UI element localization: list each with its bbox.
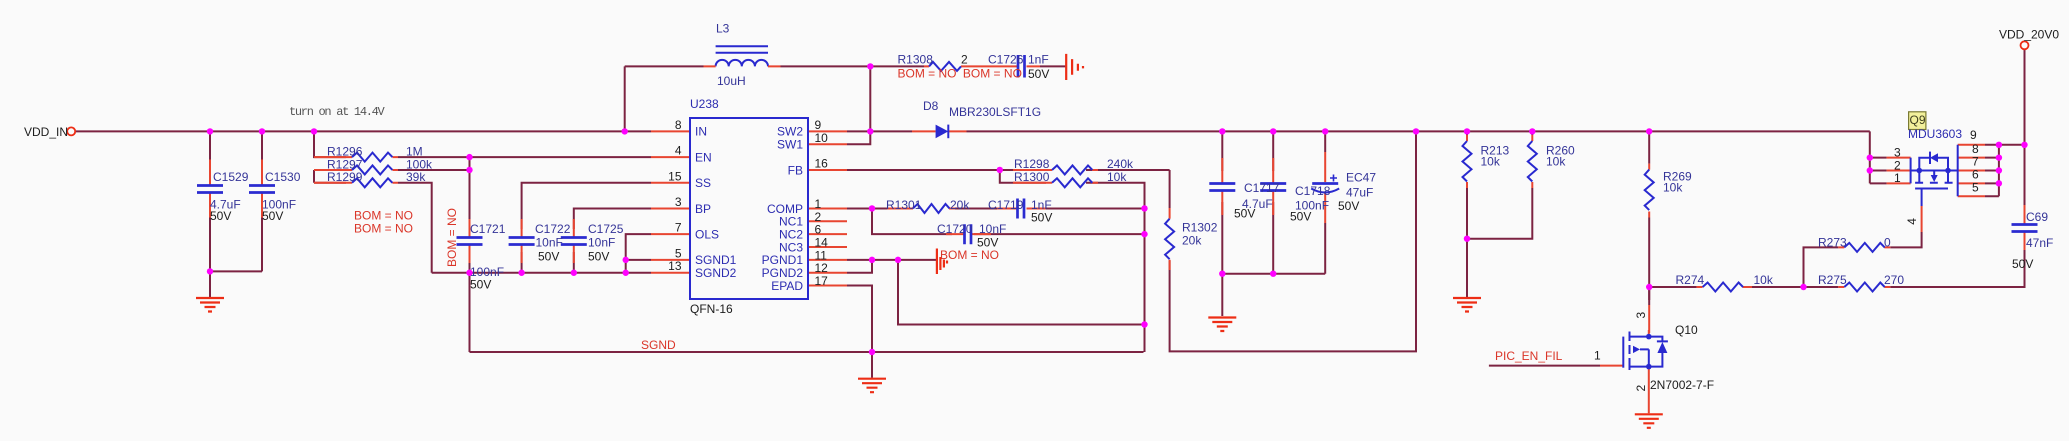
- svg-text:10k: 10k: [1663, 181, 1683, 195]
- svg-text:C1720: C1720: [937, 222, 973, 236]
- svg-text:10k: 10k: [1546, 155, 1566, 169]
- svg-text:EC47: EC47: [1346, 171, 1376, 185]
- svg-text:C1717: C1717: [1244, 181, 1280, 195]
- svg-text:SGND: SGND: [641, 338, 676, 352]
- svg-text:BOM = NO: BOM = NO: [963, 66, 1022, 80]
- svg-text:turn on at 14.4V: turn on at 14.4V: [289, 105, 386, 119]
- svg-text:C69: C69: [2026, 210, 2048, 224]
- svg-text:13: 13: [668, 259, 682, 273]
- svg-text:BOM = NO: BOM = NO: [940, 248, 999, 262]
- svg-text:10nF: 10nF: [588, 236, 615, 250]
- svg-text:47uF: 47uF: [1346, 186, 1373, 200]
- svg-text:IN: IN: [695, 125, 707, 139]
- svg-text:50V: 50V: [1290, 210, 1311, 224]
- svg-text:BOM = NO: BOM = NO: [445, 208, 459, 267]
- svg-text:2: 2: [961, 53, 968, 67]
- svg-text:R1299: R1299: [327, 170, 363, 184]
- svg-text:50V: 50V: [538, 250, 559, 264]
- svg-text:4: 4: [675, 144, 682, 158]
- svg-text:3: 3: [1634, 312, 1648, 319]
- svg-text:50V: 50V: [1338, 199, 1359, 213]
- svg-text:39k: 39k: [406, 170, 426, 184]
- svg-text:10nF: 10nF: [979, 222, 1006, 236]
- svg-text:U238: U238: [690, 97, 719, 111]
- svg-text:5: 5: [1972, 180, 1979, 194]
- svg-text:47nF: 47nF: [2026, 236, 2053, 250]
- svg-text:EPAD: EPAD: [771, 279, 803, 293]
- svg-text:R273: R273: [1818, 236, 1847, 250]
- svg-text:L3: L3: [716, 22, 730, 36]
- svg-text:EN: EN: [695, 150, 712, 164]
- svg-text:1nF: 1nF: [1028, 53, 1049, 67]
- svg-text:50V: 50V: [470, 278, 491, 292]
- svg-text:C1722: C1722: [535, 222, 571, 236]
- svg-text:14: 14: [815, 236, 829, 250]
- svg-text:Q9: Q9: [1910, 113, 1926, 127]
- svg-text:MBR230LSFT1G: MBR230LSFT1G: [949, 105, 1041, 119]
- svg-text:0: 0: [1884, 236, 1891, 250]
- svg-text:2: 2: [815, 210, 822, 224]
- svg-text:3: 3: [675, 195, 682, 209]
- svg-text:VDD_20V0: VDD_20V0: [1999, 28, 2059, 42]
- svg-text:PIC_EN_FIL: PIC_EN_FIL: [1495, 349, 1563, 363]
- svg-text:10k: 10k: [1107, 170, 1127, 184]
- svg-text:20k: 20k: [950, 198, 970, 212]
- svg-text:Q10: Q10: [1675, 323, 1698, 337]
- svg-text:SW1: SW1: [777, 138, 803, 152]
- svg-text:7: 7: [675, 221, 682, 235]
- svg-text:50V: 50V: [1234, 207, 1255, 221]
- svg-text:10nF: 10nF: [536, 236, 563, 250]
- svg-text:10k: 10k: [1754, 273, 1774, 287]
- svg-text:R275: R275: [1818, 273, 1847, 287]
- svg-text:BP: BP: [695, 202, 711, 216]
- svg-text:10: 10: [815, 131, 829, 145]
- svg-text:270: 270: [1884, 273, 1904, 287]
- svg-text:50V: 50V: [1028, 67, 1049, 81]
- svg-text:R1308: R1308: [898, 53, 934, 67]
- svg-text:D8: D8: [923, 99, 939, 113]
- svg-text:C1529: C1529: [213, 170, 249, 184]
- svg-text:C1726: C1726: [988, 53, 1024, 67]
- svg-text:2: 2: [1634, 385, 1648, 392]
- svg-text:SS: SS: [695, 176, 711, 190]
- svg-text:MDU3603: MDU3603: [1908, 127, 1962, 141]
- svg-text:20k: 20k: [1182, 233, 1202, 247]
- svg-text:PGND2: PGND2: [762, 266, 804, 280]
- svg-text:100k: 100k: [406, 157, 433, 171]
- svg-text:C1721: C1721: [470, 222, 506, 236]
- svg-text:R274: R274: [1676, 273, 1705, 287]
- svg-text:3: 3: [1894, 146, 1901, 160]
- svg-text:10uH: 10uH: [717, 74, 746, 88]
- svg-text:NC3: NC3: [779, 240, 803, 254]
- svg-text:9: 9: [815, 118, 822, 132]
- svg-text:50V: 50V: [262, 209, 283, 223]
- svg-text:SGND2: SGND2: [695, 266, 737, 280]
- svg-text:50V: 50V: [210, 209, 231, 223]
- svg-text:C1530: C1530: [265, 170, 301, 184]
- svg-text:2N7002-7-F: 2N7002-7-F: [1650, 378, 1714, 392]
- svg-text:NC1: NC1: [779, 215, 803, 229]
- svg-text:R1297: R1297: [327, 157, 363, 171]
- svg-text:12: 12: [815, 261, 829, 275]
- svg-text:50V: 50V: [2012, 257, 2033, 271]
- svg-text:1: 1: [1894, 171, 1901, 185]
- svg-text:BOM = NO: BOM = NO: [354, 222, 413, 236]
- svg-text:240k: 240k: [1107, 157, 1134, 171]
- svg-text:50V: 50V: [1031, 211, 1052, 225]
- svg-text:50V: 50V: [588, 250, 609, 264]
- svg-text:QFN-16: QFN-16: [690, 302, 733, 316]
- svg-text:SW2: SW2: [777, 125, 803, 139]
- svg-text:16: 16: [815, 157, 829, 171]
- svg-text:17: 17: [815, 274, 829, 288]
- svg-text:9: 9: [1970, 128, 1977, 142]
- svg-text:C1725: C1725: [588, 222, 624, 236]
- svg-text:8: 8: [675, 118, 682, 132]
- svg-text:R1300: R1300: [1014, 170, 1050, 184]
- svg-text:C1719: C1719: [988, 198, 1024, 212]
- svg-text:1: 1: [1594, 349, 1601, 363]
- svg-text:OLS: OLS: [695, 228, 719, 242]
- svg-text:15: 15: [668, 169, 682, 183]
- svg-text:BOM = NO: BOM = NO: [898, 66, 957, 80]
- svg-text:R1298: R1298: [1014, 157, 1050, 171]
- svg-text:4: 4: [1905, 218, 1919, 225]
- svg-text:BOM = NO: BOM = NO: [354, 209, 413, 223]
- svg-text:10k: 10k: [1481, 155, 1501, 169]
- svg-text:FB: FB: [788, 163, 803, 177]
- svg-text:R1301: R1301: [886, 198, 922, 212]
- svg-text:8: 8: [1972, 142, 1979, 156]
- svg-text:C1718: C1718: [1295, 184, 1331, 198]
- svg-text:VDD_IN: VDD_IN: [24, 125, 68, 139]
